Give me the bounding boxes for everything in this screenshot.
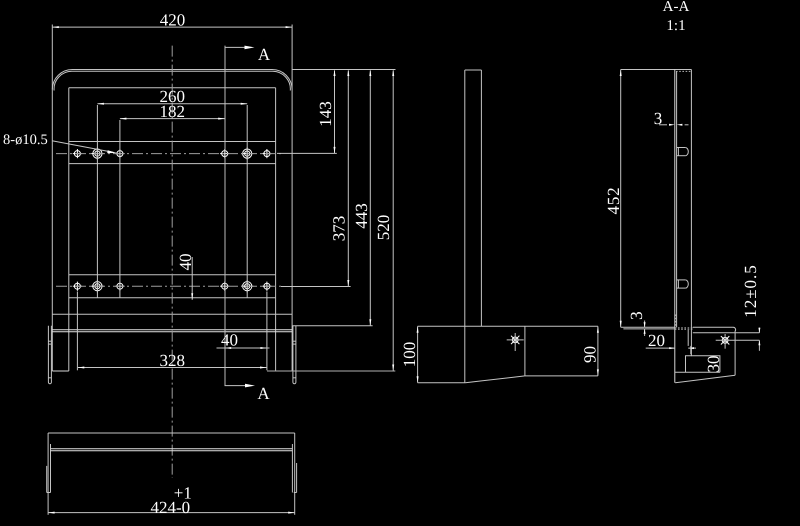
dim 40 horizontal arrows (225, 347, 232, 349)
hole row1 col1 (x77.4) (73, 149, 82, 158)
dim 452 line (620, 70, 622, 328)
bottom view top edge (48, 432, 295, 434)
plate bottom edge (visible left segment) (52, 370, 69, 372)
bottom view right edge / dim extension (294, 433, 296, 515)
dim 452 arrows (620, 70, 622, 77)
sheet left wall outer line (674, 70, 676, 383)
dim 90 arrows (597, 326, 599, 333)
flange rear edge line (690, 70, 692, 357)
dim 40 vertical line (191, 257, 193, 300)
dim 424 arrows (48, 512, 55, 514)
seat surface right of wall (693, 327, 736, 375)
base block right edge (dim 90 line) (597, 326, 599, 376)
dim 443 arrows (369, 70, 371, 77)
svg-text:12±0.5: 12±0.5 (741, 264, 760, 318)
hole row2 col4 (x224.7) (220, 282, 229, 291)
svg-text:A: A (257, 384, 270, 403)
hole row2 col5 double circle (x247.2) (241, 280, 253, 292)
hole row1 col3 (x119.9) (115, 149, 124, 158)
top bend hatch (dotted) (676, 70, 691, 72)
upper hole strip bottom line (69, 163, 276, 165)
bottom bend hatch rows (dotted) (675, 327, 693, 329)
inner recess rectangle left edge (68, 88, 70, 371)
seat front edge double line (lower) (51, 450, 293, 452)
dim 520 arrows (392, 70, 394, 77)
seat surface line left of wall (ext for 452) (621, 326, 675, 328)
dim 143 extension (hole row1 to dim) (277, 152, 337, 154)
upright bar right edge (480, 70, 482, 326)
svg-text:90: 90 (580, 346, 599, 363)
datum target on seat (716, 334, 760, 349)
plate outline (outer, rounded top corners) (52, 70, 292, 372)
section arrow top (225, 46, 248, 48)
dim 182 line (120, 118, 225, 120)
svg-text:424-0: 424-0 (151, 498, 191, 517)
base block bottom slanted edge (465, 376, 525, 383)
base block left edge (dim 100 line) (417, 326, 419, 382)
seat inner surface line (ext for 12) (693, 332, 760, 334)
dim 40 horizontal line (217, 347, 270, 349)
dim 100 arrows (417, 326, 419, 333)
svg-text:520: 520 (374, 215, 393, 241)
svg-text:373: 373 (329, 216, 348, 242)
left side tab (48, 326, 51, 384)
dim 420 right extension (291, 25, 293, 90)
bottom bend hatch column (dotted) (675, 315, 677, 328)
right end cap (294, 492, 297, 494)
dim 20 extension upper (687, 330, 689, 346)
upper hole row centre line (56, 153, 281, 155)
dim 260 line (97, 103, 247, 105)
svg-text:452: 452 (604, 187, 623, 215)
dim 328 line (78, 367, 267, 369)
dim 373 line (347, 71, 349, 287)
inner recess rectangle top edge (69, 87, 276, 89)
svg-text:420: 420 (160, 11, 186, 30)
svg-text:1:1: 1:1 (666, 18, 685, 34)
dim 520 extension (plate bottom to dim) (267, 370, 395, 372)
holes group (73, 147, 272, 292)
hole row2 col6 (x266.9) (262, 282, 271, 291)
right tab weld ticks (293, 340, 296, 342)
plate bottom edge (visible right segment) (276, 370, 293, 372)
extension line x97.4 (96, 105, 98, 298)
vertical centre line of part (171, 46, 173, 478)
upper hole strip top line (69, 141, 276, 143)
extension line x266.9 (row2 hole to dim328) (266, 292, 268, 371)
front dims (3, 11, 396, 404)
hole row2 col1 (x77.4) (73, 282, 82, 291)
svg-text:100: 100 (400, 342, 419, 368)
section arrow bottom (225, 385, 247, 387)
centerlines (56, 46, 281, 478)
top right extension line y69.5 (292, 69, 395, 71)
lower hole row centre line (56, 285, 281, 287)
svg-text:328: 328 (159, 351, 185, 370)
base block top edge (418, 325, 598, 327)
plate top inner bend line (54, 71, 290, 90)
slot for seat fixing (section) (686, 356, 720, 373)
lower hole section (D shape) (677, 280, 689, 288)
left tab weld ticks (48, 340, 51, 342)
seat front edge double line (upper) (51, 448, 293, 450)
dim 443 extension (seat top to dim) (292, 325, 373, 327)
svg-text:40: 40 (176, 254, 195, 271)
dim 40 vertical arrow (191, 293, 193, 300)
svg-text:A: A (258, 45, 271, 64)
hole row1 col4 (x224.7) (220, 149, 229, 158)
sheet left wall inner line (676, 71, 678, 327)
lower hole strip bottom line (69, 297, 276, 299)
datum target on base block (507, 333, 524, 351)
svg-text:40: 40 (221, 331, 238, 350)
dim 143 line (334, 71, 336, 154)
svg-text:30: 30 (704, 356, 723, 373)
dim 3 seat arrows (644, 321, 646, 328)
dim 420 line (52, 26, 292, 28)
svg-text:20: 20 (648, 331, 665, 350)
inner recess rectangle right edge (275, 88, 277, 371)
dim 520 line (392, 71, 394, 372)
left end cap (47, 492, 51, 494)
dim 420 arrows (52, 26, 59, 28)
dim 443 line (369, 71, 371, 326)
dim 424 line (48, 512, 295, 514)
hole row2 col3 (x119.9) (115, 282, 124, 291)
upright bar top edge (465, 69, 482, 71)
svg-text:443: 443 (352, 203, 371, 229)
dim 260 arrows (97, 103, 104, 105)
hole row1 col5 double circle (x247.2) (241, 147, 253, 159)
dim 20 line and arrows (646, 347, 675, 349)
lower hole strip top line (69, 274, 276, 276)
extension line x119.9 (119, 120, 121, 298)
hole row1 col2 double circle (x97.4) (91, 147, 103, 159)
upright bar left edge (continues into base) (464, 70, 466, 383)
seat sheet lower line left of wall (623, 328, 674, 330)
dim 373 extension (hole row2 to dim) (281, 286, 351, 288)
seat front edge double line (upper) (52, 329, 292, 331)
dim 373 arrows (347, 70, 349, 77)
right end outer tab (296, 463, 298, 493)
extension line x77.4 (row2 hole to dim328) (76, 292, 78, 371)
left end outer tab (46, 466, 48, 493)
seat bottom slant (675, 375, 735, 383)
hole row2 col2 double circle (x97.4) (91, 280, 103, 292)
svg-text:3: 3 (627, 311, 646, 320)
svg-text:143: 143 (316, 101, 335, 127)
right side tab (293, 326, 296, 384)
seat front edge double line (lower) (52, 331, 292, 333)
base block divider line (524, 326, 526, 376)
base block bottom left edge (418, 382, 466, 384)
dim 143 arrows (334, 70, 336, 77)
horizontal line below lower strip (52, 313, 292, 315)
base block bottom right edge (525, 375, 598, 377)
dim 182 arrows (120, 118, 127, 120)
svg-text:8-ø10.5: 8-ø10.5 (3, 132, 48, 148)
right end inner wall (291, 444, 293, 493)
bottom view left edge / dim extension (47, 433, 49, 515)
dim 328 arrows (78, 367, 85, 369)
dim 3 line and arrows (659, 124, 667, 126)
top edge / extension to dim 452 (621, 69, 692, 71)
dim 12+-0.5 lines and arrows (758, 328, 760, 333)
upper hole section (D shape) (677, 148, 689, 156)
dim 20 extension lower (690, 346, 692, 354)
svg-text:A-A: A-A (663, 0, 690, 15)
leader line (52, 141, 114, 153)
plate bottom edge in section (shared with slot bottom) (675, 371, 720, 373)
section cut line A-A (224, 46, 226, 386)
left end inner wall (50, 444, 52, 493)
extension line x247.2 (246, 105, 248, 298)
leader arrow (107, 150, 117, 153)
hole row1 col6 (x266.9) (262, 149, 271, 158)
dim 420 left extension (51, 25, 53, 90)
svg-text:182: 182 (159, 102, 185, 121)
